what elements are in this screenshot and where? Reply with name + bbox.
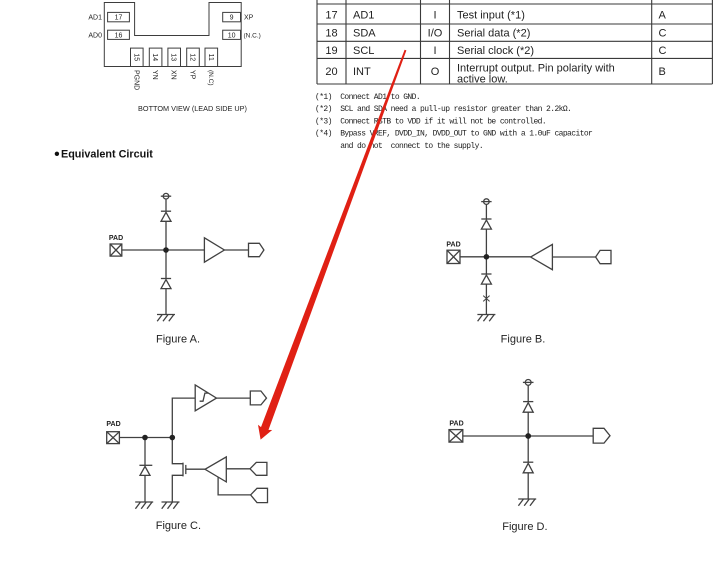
figure C: ground 1 — [135, 502, 153, 509]
figure A: wire buffer to output tag — [224, 249, 248, 251]
svg-text:active low.: active low. — [457, 74, 508, 86]
svg-text:18: 18 — [325, 28, 337, 40]
figure D: wire PAD to output tag — [463, 435, 593, 437]
svg-text:C: C — [659, 45, 667, 57]
figure D: wire node to diode D2 — [527, 436, 529, 462]
red annotation arrow head — [258, 425, 272, 440]
svg-text:17: 17 — [115, 15, 123, 22]
svg-text:15: 15 — [132, 53, 139, 61]
figure D: diode D1 (to supply) — [523, 402, 533, 413]
figure B: diode D2 (to ground) — [481, 274, 491, 284]
figure A: diode D1 (to supply) — [161, 211, 171, 221]
figure B: wire tick mark — [483, 296, 489, 302]
figure A: wire supply to diode D1 — [165, 199, 167, 211]
red annotation arrow shaft — [260, 50, 406, 433]
svg-text:XN: XN — [170, 70, 177, 80]
svg-text:Test input (*1): Test input (*1) — [457, 10, 525, 22]
svg-text:SCL: SCL — [353, 45, 374, 57]
figure B: wire diode D1 to node — [485, 229, 487, 257]
svg-text:O: O — [431, 66, 440, 78]
figure C: wire to tag 2 — [218, 477, 251, 495]
svg-text:PAD: PAD — [106, 421, 120, 428]
figure B: PAD terminal — [447, 250, 460, 263]
svg-text:Serial clock (*2): Serial clock (*2) — [457, 45, 534, 57]
pin 16 lead box — [108, 30, 130, 39]
svg-text:(*4) Bypass VREF, DVDD_IN, DV: (*4) Bypass VREF, DVDD_IN, DVDD_OUT to G… — [315, 130, 593, 139]
svg-text:(*3) Connect RSTB to VDD if i: (*3) Connect RSTB to VDD if it will not … — [315, 117, 546, 126]
figure C: wire PAD to node B — [119, 437, 172, 439]
svg-text:Figure D.: Figure D. — [502, 521, 547, 533]
figure C: NMOS Q1 gate bar — [185, 465, 187, 474]
svg-text:I: I — [433, 45, 436, 57]
figure B: wire supply to diode D1 — [485, 204, 487, 219]
figure D: node junction dot — [525, 433, 531, 439]
svg-text:13: 13 — [170, 53, 177, 61]
figure A: input buffer U1 — [204, 238, 224, 262]
figure C: output signal tag — [250, 391, 266, 405]
figure C: node B junction dot — [170, 435, 176, 441]
pin 12 lead box — [187, 48, 200, 66]
figure A: supply terminal — [161, 193, 171, 199]
figure B: wire driver input to tag — [552, 256, 595, 258]
figure B: output driver U1 (points left) — [531, 244, 553, 269]
figure C: hysteresis mark — [200, 393, 209, 401]
svg-text:YN: YN — [151, 70, 158, 80]
figure C: wire node B up to schmitt input — [172, 398, 195, 437]
svg-text:AD1: AD1 — [88, 15, 102, 22]
figure A: wire diode D1 to node — [165, 221, 167, 250]
figure B: diode D1 (to supply) — [481, 219, 491, 229]
svg-text:(N.C): (N.C) — [207, 70, 214, 86]
figure C: input signal tag 1 (points left) — [250, 462, 267, 475]
figure A: ground — [157, 315, 175, 322]
figure D: wire diode D2 to ground — [527, 473, 529, 499]
heading bullet — [55, 152, 59, 156]
pin 14 lead box — [149, 48, 162, 66]
svg-text:Figure A.: Figure A. — [156, 334, 200, 346]
figure C: ground 2 — [162, 502, 180, 509]
figure D: supply terminal — [523, 380, 534, 386]
svg-text:(N.C.): (N.C.) — [244, 32, 261, 39]
svg-text:10: 10 — [228, 32, 236, 39]
svg-text:INT: INT — [353, 66, 371, 78]
svg-text:C: C — [659, 28, 667, 40]
svg-text:Serial data (*2): Serial data (*2) — [457, 28, 530, 40]
figure A: node junction dot — [163, 247, 169, 253]
pin 15 lead box — [131, 48, 144, 66]
svg-text:A: A — [659, 10, 667, 22]
figure B: input signal tag (points left) — [596, 250, 611, 263]
figure A: wire node to diode D2 — [165, 250, 167, 279]
figure C: wire diode to ground — [144, 475, 146, 502]
figure C: NMOS Q1 source lead — [172, 475, 183, 502]
figure C: PAD terminal — [107, 432, 120, 444]
figure D: diode D2 (to ground) — [523, 462, 533, 473]
figure B: wire PAD to driver output — [460, 256, 531, 258]
svg-text:Figure C.: Figure C. — [156, 520, 201, 532]
svg-text:BOTTOM VIEW (LEAD SIDE UP): BOTTOM VIEW (LEAD SIDE UP) — [138, 104, 247, 113]
svg-text:I: I — [433, 10, 436, 22]
svg-text:17: 17 — [325, 10, 337, 22]
figure C: wire node A to diode — [144, 438, 146, 466]
svg-text:12: 12 — [189, 53, 196, 61]
svg-text:B: B — [659, 66, 666, 78]
svg-text:16: 16 — [115, 32, 123, 39]
figure C: NMOS Q1 channel bar — [182, 463, 184, 477]
svg-text:AD1: AD1 — [353, 10, 374, 22]
pin 10 lead box — [223, 30, 241, 39]
figure B: wire node to diode D2 — [485, 257, 487, 274]
svg-text:14: 14 — [151, 53, 158, 61]
svg-text:(*2) SCL and SDA need a pull-: (*2) SCL and SDA need a pull-up resistor… — [315, 105, 571, 114]
pin 9 lead box — [223, 12, 241, 21]
figure D: wire supply to diode D1 — [527, 385, 529, 401]
svg-text:AD0: AD0 — [88, 32, 102, 39]
figure A: wire diode D2 to ground — [165, 289, 167, 315]
figure B: wire diode D2 to ground — [485, 284, 487, 314]
pin 13 lead box — [168, 48, 181, 66]
figure A: wire PAD to buffer input — [122, 249, 205, 251]
figure B: node junction dot — [484, 254, 490, 260]
svg-text:Equivalent Circuit: Equivalent Circuit — [61, 149, 153, 161]
figure C: gate driver U2 (points left) — [205, 457, 226, 482]
svg-text:19: 19 — [325, 45, 337, 57]
figure D: output signal tag — [593, 428, 610, 443]
svg-text:PAD: PAD — [449, 421, 463, 428]
svg-text:11: 11 — [207, 54, 214, 61]
svg-text:20: 20 — [325, 66, 337, 78]
pin 11 lead box — [205, 48, 218, 66]
svg-text:and do not connect to the sup: and do not connect to the supply. — [315, 142, 483, 151]
figure C: wire driver to tag 1 — [226, 468, 250, 470]
figure D: ground — [518, 499, 536, 506]
table vertical grid lines — [317, 0, 712, 84]
package outline (bottom view, cropped at top) — [104, 3, 241, 67]
figure C: NMOS Q1 drain lead — [172, 438, 183, 464]
figure A: diode D2 (to ground) — [161, 279, 171, 289]
figure C: wire schmitt to output tag — [217, 397, 251, 399]
svg-text:SDA: SDA — [353, 28, 376, 40]
pin 17 lead box — [108, 12, 130, 21]
svg-text:XP: XP — [244, 15, 254, 22]
svg-text:9: 9 — [230, 15, 234, 22]
figure C: NMOS Q1 gate lead — [186, 468, 205, 470]
figure A: output signal tag — [249, 243, 264, 256]
figure D: PAD terminal — [449, 430, 463, 443]
figure D: wire diode D1 to node — [527, 412, 529, 436]
figure C: node A junction dot — [142, 435, 148, 441]
svg-text:PAD: PAD — [109, 235, 123, 242]
figure C: input signal tag 2 (points left) — [251, 488, 268, 502]
svg-text:I/O: I/O — [428, 28, 443, 40]
svg-text:YP: YP — [189, 70, 196, 80]
figure C: diode D1 (to ground) — [139, 465, 152, 475]
figure B: ground — [477, 315, 495, 322]
svg-text:Figure B.: Figure B. — [501, 334, 546, 346]
table horizontal grid lines — [317, 4, 712, 84]
SECTIONS INSERTED BELOW — [104, 3, 241, 67]
svg-text:(*1) Connect AD1 to GND.: (*1) Connect AD1 to GND. — [315, 93, 420, 102]
figure A: PAD terminal — [110, 244, 122, 256]
figure C: schmitt buffer U1 — [195, 385, 216, 411]
svg-text:PAD: PAD — [446, 241, 460, 248]
figure B: supply terminal — [481, 199, 491, 205]
svg-text:PGND: PGND — [132, 70, 139, 90]
